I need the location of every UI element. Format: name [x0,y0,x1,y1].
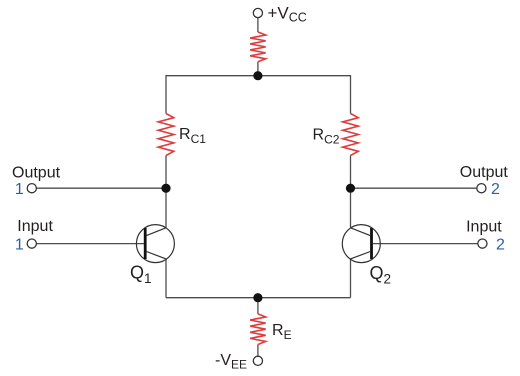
wire: input 2 lead [373,243,478,245]
resistor R_C1 [158,114,174,156]
wire: RCC resistor bottom to top rail [257,62,259,76]
wire: left branch RC1 bottom to Q1 collector [165,156,167,228]
wire: bottom rail [166,297,351,299]
svg-text:1: 1 [15,237,24,254]
svg-text:2: 2 [496,237,505,254]
wire: right branch RC2 bottom to Q2 collector [350,156,352,228]
node: output 2 junction [346,184,355,193]
resistor R_E [250,314,266,345]
terminal: output 1 [27,184,36,193]
wire: input 1 lead [36,243,144,245]
svg-text:Output: Output [12,164,61,181]
svg-text:Output: Output [460,164,509,181]
wire: RE bottom to -VEE terminal [257,345,259,357]
node: bottom rail junction [253,293,262,302]
svg-text:Input: Input [466,219,502,236]
terminal: +VCC [253,8,262,17]
svg-text:2: 2 [491,181,500,198]
wire: +VCC terminal to RCC resistor top [257,18,259,32]
wire: top rail [166,76,351,114]
transistor Q1 [136,225,174,263]
node: output 1 junction [161,184,170,193]
wire: Q1 emitter down to bottom rail [165,259,167,298]
wire: Q2 emitter down to bottom rail [350,259,352,298]
terminal: -VEE [253,356,262,365]
wire: output 1 lead [36,187,166,189]
wire: output 2 lead [351,187,477,189]
svg-text:1: 1 [15,181,24,198]
resistor R_C2 [343,114,359,156]
terminal: input 1 [27,239,36,248]
node: top rail junction [253,71,262,80]
svg-text:Input: Input [17,218,53,235]
terminal: output 2 [477,184,486,193]
transistor Q2 [342,225,380,263]
resistor RCC (supply resistor) [250,32,266,62]
terminal: input 2 [478,239,487,248]
wire: bottom rail junction to RE top [257,298,259,314]
